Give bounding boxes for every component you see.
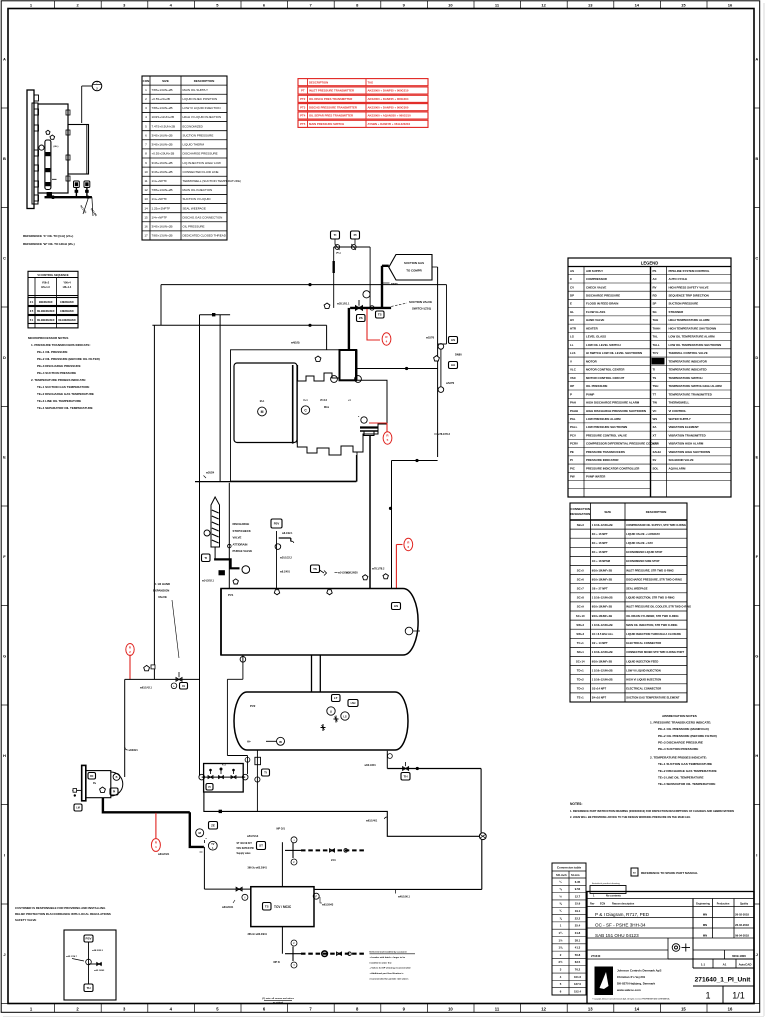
svg-text:22.2: 22.2 [575, 916, 581, 920]
svg-text:50% RATED PSI: 50% RATED PSI [237, 847, 255, 850]
oil receiver vessel PV2 [234, 692, 408, 750]
svg-text:9/16+18UNF+2B: 9/16+18UNF+2B [592, 605, 612, 609]
svg-text:13: 13 [144, 197, 148, 201]
red highlight wire at suction valve [367, 309, 380, 340]
svg-text:LI: LI [330, 710, 333, 714]
svg-text:TEMPERATURE INDICATOR: TEMPERATURE INDICATOR [669, 359, 708, 363]
red revision balloon 3 [404, 538, 413, 550]
svg-text:24 h: 24 h [331, 859, 336, 862]
svg-text:1/4++NPTF: 1/4++NPTF [152, 197, 168, 201]
conversion table [552, 863, 586, 995]
svg-text:VI CONTROL SEQUENCE: VI CONTROL SEQUENCE [37, 273, 68, 277]
svg-text:3/4+16 NPT: 3/4+16 NPT [592, 696, 607, 700]
red highlight wire discharge [369, 422, 387, 424]
svg-text:DP: DP [570, 294, 574, 298]
svg-text:366-3c w63.2/941: 366-3c w63.2/941 [248, 867, 268, 870]
svg-text:w62.1/74.7: w62.1/74.7 [66, 955, 78, 958]
svg-text:SD+1: SD+1 [577, 650, 585, 654]
svg-text:7/8S+13UN+2B: 7/8S+13UN+2B [152, 234, 173, 238]
suction housing bold [340, 350, 357, 380]
svg-text:3/4S+16UN+2B: 3/4S+16UN+2B [152, 170, 173, 174]
svg-text:PAH: PAH [570, 401, 576, 405]
wire drop to economizer line [219, 315, 221, 482]
svg-text:SI-mm: SI-mm [571, 873, 580, 877]
svg-text:REFERENCE 'X' OIL TO [GA] (24+: REFERENCE 'X' OIL TO [GA] (24+) [23, 234, 73, 238]
svg-text:16: 16 [728, 1006, 733, 1011]
svg-text:1 1/16+12UN+2B: 1 1/16+12UN+2B [592, 677, 613, 681]
svg-text:FLOW GLASS: FLOW GLASS [586, 310, 605, 314]
svg-text:w63.2/421: w63.2/421 [158, 853, 170, 856]
svg-text:AKS3000 + DANF05 + 060G304: AKS3000 + DANF05 + 060G304 [368, 97, 409, 101]
svg-text:LLS: LLS [570, 351, 576, 355]
svg-text:C+1: C+1 [303, 400, 308, 402]
svg-text:w8.1/22.1: w8.1/22.1 [282, 532, 293, 535]
svg-text:PE+3 DISCHARGE PRESSURE: PE+3 DISCHARGE PRESSURE [658, 740, 703, 744]
flag suction gas to compressor [389, 255, 432, 281]
svg-text:50.8: 50.8 [575, 953, 581, 957]
svg-text:SIZE: SIZE [162, 79, 169, 83]
svg-text:DISCHARGE PRESSURE: DISCHARGE PRESSURE [183, 152, 218, 156]
svg-text:SC+5: SC+5 [577, 568, 585, 572]
svg-text:3/4S+16UN+2B: 3/4S+16UN+2B [152, 143, 173, 147]
svg-text:DISCHARGE PRESSURE: DISCHARGE PRESSURE [586, 294, 620, 298]
svg-text:COMPRESSOR DIFFERENTIAL PRESSU: COMPRESSOR DIFFERENTIAL PRESSURE COOLER [586, 442, 659, 446]
svg-text:DE-ENERGIZED: DE-ENERGIZED [58, 320, 76, 322]
svg-text:HIGH DISCHARGE PRESSURE ALARM: HIGH DISCHARGE PRESSURE ALARM [586, 401, 640, 405]
oil pump P1 [82, 765, 86, 800]
svg-text:7.47S+0.5UN+2B: 7.47S+0.5UN+2B [152, 124, 176, 128]
svg-text:26-02-2018: 26-02-2018 [735, 913, 749, 917]
bottom grid band ticks [54, 1004, 56, 1013]
svg-text:VIBRATION HIGH SHUTDOWN: VIBRATION HIGH SHUTDOWN [669, 450, 711, 454]
svg-text:17: 17 [144, 234, 148, 238]
page edge shadow [763, 3, 765, 1016]
svg-text:ZE: ZE [211, 823, 215, 827]
svg-text:10: 10 [144, 170, 148, 174]
relief isolation valve [275, 544, 281, 550]
svg-text:LOW PRESSURE ALARM: LOW PRESSURE ALARM [586, 417, 621, 421]
svg-text:PE: PE [570, 450, 574, 454]
svg-text:WATER SUPPLY: WATER SUPPLY [669, 417, 691, 421]
svg-text:STRAINER: STRAINER [669, 310, 685, 314]
compressor C1 body [297, 350, 387, 455]
svg-text:OP: OP [570, 384, 574, 388]
wire suction shutoff run [350, 307, 391, 309]
svg-text:SIZE: SIZE [604, 510, 611, 514]
svg-text:A1: A1 [723, 963, 727, 967]
svg-text:3/4 + 16 NPT: 3/4 + 16 NPT [592, 550, 608, 554]
svg-text:ENERGIZED: ENERGIZED [39, 302, 53, 304]
svg-text:RV: RV [653, 285, 657, 289]
svg-text:B: B [116, 776, 118, 779]
svg-text:SUCTION GAS: SUCTION GAS [404, 261, 424, 265]
svg-text:26-02-2018: 26-02-2018 [735, 923, 749, 927]
relief outlet elbow [279, 537, 291, 539]
svg-text:VSC: VSC [570, 376, 577, 380]
red highlight wire expansion [129, 655, 131, 680]
pentagon tag on compressor [315, 356, 321, 361]
svg-text:ELECTRICAL CONNECTOR: ELECTRICAL CONNECTOR [626, 641, 661, 645]
svg-text:THERMAL CONTROL VALVE: THERMAL CONTROL VALVE [669, 351, 708, 355]
svg-text:TERMOWELL (SUCTION TEMPERATURE: TERMOWELL (SUCTION TEMPERATURE) [183, 179, 241, 183]
svg-text:DESIGNATION: DESIGNATION [570, 512, 590, 516]
svg-text:PUMP WATER: PUMP WATER [586, 475, 606, 479]
svg-text:SWITCH (Z01): SWITCH (Z01) [412, 307, 431, 311]
svg-text:LT: LT [334, 696, 338, 700]
wire discharge check run bold [214, 559, 239, 568]
junction node [308, 324, 311, 327]
svg-text:3/4 + 16 NPT: 3/4 + 16 NPT [592, 532, 608, 536]
wire separator to receiver B [319, 655, 321, 692]
svg-text:w63.1/42.1: w63.1/42.1 [140, 687, 152, 690]
red highlight oil supply [155, 813, 157, 839]
drain valve solid tag [219, 570, 225, 575]
svg-text:LIQUID INJECTION, STR TWD O-RI: LIQUID INJECTION, STR TWD O-RING [626, 596, 674, 600]
svg-text:w8.1/401: w8.1/401 [280, 571, 291, 574]
svg-text:VALVE: VALVE [158, 595, 167, 599]
svg-text:CON: CON [143, 79, 150, 83]
wire strainer outlet [214, 547, 216, 559]
svg-text:152.4: 152.4 [574, 989, 581, 993]
svg-text:1: 1 [705, 991, 710, 1001]
svg-text:PSV: PSV [274, 522, 280, 526]
wire to TCV [203, 847, 205, 889]
svg-text:1 1/16+12UN+2B: 1 1/16+12UN+2B [592, 668, 613, 672]
svg-text:HV: HV [570, 318, 574, 322]
svg-text:TE+4 SEPARATOR OIL TEMPERATURE: TE+4 SEPARATOR OIL TEMPERATURE [37, 406, 93, 410]
svg-text:CV: CV [570, 285, 574, 289]
svg-text:MN: MN [703, 934, 707, 938]
discharge flange bold [360, 426, 378, 428]
svg-text:LOW OIL TEMPERATURE ALARM: LOW OIL TEMPERATURE ALARM [669, 335, 716, 339]
junction node [389, 507, 392, 510]
svg-text:OIL SEPAR PRES TRANSMITTER: OIL SEPAR PRES TRANSMITTER [309, 114, 353, 118]
svg-text:1½: 1½ [559, 938, 564, 942]
sheet number cells [722, 986, 724, 1004]
svg-text:VLC: VLC [570, 368, 577, 372]
svg-text:LOW OIL TEMPERATURE SHUTDOWN: LOW OIL TEMPERATURE SHUTDOWN [669, 343, 722, 347]
svg-text:31.8: 31.8 [575, 931, 581, 935]
svg-text:PT: PT [301, 89, 305, 93]
svg-text:TI: TI [264, 771, 267, 775]
svg-text:PT3: PT3 [300, 105, 306, 109]
pentagon nozzle tag [233, 579, 238, 584]
water return dashed wire bottom [301, 953, 364, 955]
svg-text:SOLENOID VALVE: SOLENOID VALVE [669, 458, 694, 462]
svg-text:PUMP: PUMP [586, 392, 594, 396]
svg-text:ST: ST [259, 844, 263, 848]
svg-text:SUCTION PRESSURE: SUCTION PRESSURE [183, 133, 214, 137]
svg-text:1/1: 1/1 [732, 991, 745, 1001]
svg-text:HI SWITCH LOW OIL LEVEL SHUTDO: HI SWITCH LOW OIL LEVEL SHUTDOWN [586, 351, 642, 355]
svg-text:DE-ENERGIZED: DE-ENERGIZED [37, 320, 55, 322]
svg-text:AS: AS [394, 604, 398, 608]
pentagon tag line B end [324, 303, 330, 308]
svg-text:DESCRIPTION: DESCRIPTION [309, 80, 328, 84]
wire TCV bottom branch [281, 927, 283, 954]
wire gauge manifold [334, 246, 370, 248]
svg-text:TE+4 SEPARATOR OIL TEMPERATURE: TE+4 SEPARATOR OIL TEMPERATURE [658, 782, 715, 786]
oil filter F2 box [204, 764, 244, 793]
svg-text:SC+9: SC+9 [577, 605, 585, 609]
svg-text:installed in water line: installed in water line [370, 961, 393, 964]
control sequence table [28, 271, 78, 328]
svg-text:9/16+18UNF+2B: 9/16+18UNF+2B [592, 568, 612, 572]
svg-text:PURGE VALVE: PURGE VALVE [233, 549, 253, 553]
svg-text:COMPRESSOR OIL SUPPLY, STR TWD: COMPRESSOR OIL SUPPLY, STR TWD O-RING [626, 523, 686, 527]
svg-text:SOL: SOL [653, 466, 659, 470]
receiver heater [277, 737, 285, 745]
svg-text:LIQUID THERM: LIQUID THERM [183, 143, 205, 147]
wire left standpipe B [199, 315, 201, 775]
svg-text:DESCRIPTION: DESCRIPTION [646, 510, 667, 514]
svg-text:Autodesk product drawing: Autodesk product drawing [592, 882, 620, 885]
svg-text:101.6: 101.6 [574, 975, 581, 979]
wire discharge drop to separator [369, 436, 371, 588]
svg-text:w28.5/25.3: w28.5/25.3 [92, 950, 104, 952]
svg-text:1.25x+2NPTF: 1.25x+2NPTF [152, 206, 171, 210]
svg-text:SC+10: SC+10 [576, 614, 585, 618]
wire gauge stub B [354, 239, 356, 245]
receiver level cross marks [321, 727, 326, 729]
instrument tag TI [331, 231, 340, 239]
svg-text:15.9: 15.9 [575, 902, 581, 906]
svg-text:OIL PRESSURE: OIL PRESSURE [586, 384, 608, 388]
svg-text:1/4++NPTF: 1/4++NPTF [152, 179, 168, 183]
svg-text:ELECTRICAL CONNECTOR: ELECTRICAL CONNECTOR [626, 687, 661, 691]
svg-text:GL: GL [570, 310, 574, 314]
svg-text:RD: RD [653, 294, 657, 298]
svg-text:6009-1806: 6009-1806 [732, 954, 746, 958]
svg-text:TE+2 DISCHARGE GAS TEMPERATURE: TE+2 DISCHARGE GAS TEMPERATURE [37, 392, 94, 396]
svg-text:PT2: PT2 [300, 97, 306, 101]
svg-text:LIQUID INJECTION THROUGH A CLO: LIQUID INJECTION THROUGH A CLOSURE [626, 632, 681, 636]
separator nozzle pentagons [274, 590, 279, 595]
svg-text:TCV: TCV [653, 351, 659, 355]
svg-text:1 1/16+12UN+2B: 1 1/16+12UN+2B [592, 596, 613, 600]
red highlight separator inlet [396, 544, 402, 546]
svg-text:1/4 + 18 NPSM: 1/4 + 18 NPSM [592, 559, 611, 563]
svg-text:w52/70: w52/70 [426, 337, 435, 340]
tag AA [449, 362, 458, 369]
pump tag bubble [113, 774, 120, 781]
connection designation table [570, 503, 687, 702]
svg-text:12: 12 [541, 2, 546, 7]
svg-text:INLET PRESSURE, STR TWD O-RING: INLET PRESSURE, STR TWD O-RING [626, 568, 673, 572]
wire header left drop [160, 285, 162, 326]
svg-text:ECONOMIZED LIQUID STOP: ECONOMIZED LIQUID STOP [626, 550, 662, 554]
svg-text:366-3c w63.2/941: 366-3c w63.2/941 [248, 933, 268, 936]
svg-text:TAG: TAG [368, 80, 374, 84]
svg-text:REFERENCE 'W' OIL TO HIGH (W+): REFERENCE 'W' OIL TO HIGH (W+) [23, 242, 75, 246]
relief valve PSV line [276, 531, 278, 589]
svg-text:12: 12 [541, 1006, 546, 1011]
oil connection diagonal labels [83, 199, 88, 214]
svg-text:w78.1/78.3: w78.1/78.3 [438, 433, 451, 436]
svg-text:AKS3000 + AQANS05 + 060G210: AKS3000 + AQANS05 + 060G210 [368, 114, 412, 118]
red revision balloon 5 [151, 839, 160, 852]
projection symbol cell [667, 938, 669, 959]
svg-text:1. PRESSURE TRANSDUCERS INDICA: 1. PRESSURE TRANSDUCERS INDICATE: [650, 721, 711, 725]
svg-text:C: C [3, 256, 6, 261]
cooler check valve [479, 833, 486, 840]
svg-text:Reason description: Reason description [612, 903, 635, 906]
wire oil supply corner bold [190, 812, 204, 847]
svg-text:TS: TS [378, 313, 382, 317]
svg-text:Production: Production [717, 903, 730, 906]
wire economizer return [195, 481, 356, 483]
svg-text:VIBRATION TRANSMITTED: VIBRATION TRANSMITTED [669, 433, 706, 437]
svg-text:PRESSURE INDICATOR: PRESSURE INDICATOR [586, 458, 619, 462]
svg-text:VI=2.6: VI=2.6 [320, 399, 328, 402]
svg-text:DK-8270 Højbjerg, Denmark: DK-8270 Højbjerg, Denmark [617, 982, 655, 986]
svg-text:TE+1 SUCTION GAS TEMPERATURE: TE+1 SUCTION GAS TEMPERATURE [37, 385, 89, 389]
svg-text:INLET PRESSURE OIL COOLER, STR: INLET PRESSURE OIL COOLER, STR TWD O-RIN… [626, 605, 691, 609]
svg-text:1. REFERENCE PART INSTRUCTION: 1. REFERENCE PART INSTRUCTION DRAWING (0… [570, 809, 734, 813]
svg-text:as original: as original [273, 1002, 283, 1004]
svg-text:w63.2/941: w63.2/941 [222, 906, 234, 909]
oil separator vessel PV1 [221, 589, 418, 656]
svg-text:B: B [3, 156, 6, 161]
svg-text:D: D [755, 355, 758, 360]
svg-text:TD+1: TD+1 [577, 668, 584, 672]
approval columns [712, 899, 714, 939]
svg-text:AutoCAD: AutoCAD [739, 963, 752, 967]
svg-text:MOTOR: MOTOR [586, 359, 598, 363]
svg-text:HEATER: HEATER [586, 326, 599, 330]
svg-text:PS: PS [653, 269, 657, 273]
svg-text:I: I [756, 853, 757, 858]
svg-text:w52/70: w52/70 [446, 382, 455, 385]
svg-text:PI: PI [354, 233, 357, 237]
svg-text:PIPELINE SYSTEM CONTROL: PIPELINE SYSTEM CONTROL [669, 269, 710, 273]
compressor tag [301, 406, 309, 414]
svg-text:NOTES:: NOTES: [570, 802, 582, 806]
svg-text:PE+1 OIL PRESSURE (MANIFOLD): PE+1 OIL PRESSURE (MANIFOLD) [658, 727, 709, 731]
wire oil line to cooler [204, 792, 479, 836]
svg-text:+ breaker with hatch + larger: + breaker with hatch + larger to be [370, 956, 406, 959]
red revision balloon 2 [383, 432, 392, 444]
wire compressor drain drop [355, 455, 357, 482]
svg-text:CONNECTED MIXED STR TWD O-RING: CONNECTED MIXED STR TWD O-RING PORT [626, 650, 684, 654]
svg-text:DISCHG.GAS CONNECTION: DISCHG.GAS CONNECTION [183, 215, 223, 219]
svg-text:TEMPERATURE TRANSMITTED: TEMPERATURE TRANSMITTED [669, 392, 712, 396]
svg-text:REFERENCE TO SPARE PART MANUAL: REFERENCE TO SPARE PART MANUAL [641, 871, 698, 875]
svg-text:PI: PI [113, 791, 116, 794]
tag TS on separator [311, 565, 320, 573]
svg-text:LOW OIL LEVEL SWITCH: LOW OIL LEVEL SWITCH [586, 343, 621, 347]
svg-text:AKS3000 + DANF05 + 060G210: AKS3000 + DANF05 + 060G210 [368, 89, 409, 93]
svg-text:2. TEMPERATURE PROBES INDICATE: 2. TEMPERATURE PROBES INDICATE: [31, 378, 86, 382]
svg-text:41.3: 41.3 [575, 946, 581, 950]
strainer inlet tag [204, 530, 210, 536]
svg-text:TE+3 LINE OIL TEMPERATURE: TE+3 LINE OIL TEMPERATURE [37, 399, 81, 403]
svg-text:AV: AV [182, 685, 186, 688]
svg-text:SB+3: SB+3 [577, 523, 585, 527]
junction node [405, 367, 408, 370]
svg-text:271640_1_PI_Unit: 271640_1_PI_Unit [695, 977, 752, 984]
svg-text:2. TEMPERATURE PROBES INDICATE: 2. TEMPERATURE PROBES INDICATE: [650, 756, 707, 760]
compressor package boundary [231, 350, 358, 481]
svg-text:PI: PI [208, 786, 211, 789]
red markup table [298, 79, 428, 86]
top grid band ticks [54, 1, 56, 9]
svg-text:11: 11 [495, 1006, 500, 1011]
svg-text:H: H [755, 753, 758, 758]
svg-text:6.35: 6.35 [575, 880, 581, 884]
svg-text:XAHH: XAHH [653, 450, 661, 454]
wire bypass elbow to separator [392, 460, 438, 462]
svg-text:LSH: LSH [351, 702, 356, 705]
scale format cells [693, 967, 754, 969]
svg-text:1:1: 1:1 [701, 963, 706, 967]
motor tag [258, 407, 267, 416]
svg-text:HI=: HI= [247, 741, 251, 744]
svg-text:LL: LL [570, 343, 574, 347]
svg-text:LIQUID VALVE + LOW/DAY: LIQUID VALVE + LOW/DAY [626, 532, 660, 536]
svg-text:LOW VI LIQUID INJECTION: LOW VI LIQUID INJECTION [626, 668, 661, 672]
svg-text:TCV / MCIC: TCV / MCIC [274, 905, 292, 909]
svg-text:Conversion table: Conversion table [557, 866, 582, 870]
discharge strainer F1 [211, 497, 220, 547]
svg-text:LOW PRESSURE SHUTDOWN: LOW PRESSURE SHUTDOWN [586, 425, 627, 429]
svg-text:ZS: ZS [359, 316, 363, 320]
svg-text:PT4: PT4 [300, 114, 306, 118]
balloon detail callout [92, 81, 102, 91]
svg-text:TEMPERATURE SWITCH: TEMPERATURE SWITCH [669, 376, 703, 380]
svg-text:STOP/CHECK: STOP/CHECK [233, 529, 251, 533]
svg-text:TE+1 SUCTION GAS TEMPERATURE: TE+1 SUCTION GAS TEMPERATURE [658, 762, 712, 766]
svg-text:HIGH VI LIQUID INJECTION: HIGH VI LIQUID INJECTION [183, 115, 222, 119]
tag TI filter [202, 554, 211, 562]
svg-text:I: I [4, 853, 5, 858]
svg-text:14: 14 [635, 2, 640, 7]
receiver level instruments [332, 695, 341, 702]
wire right bypass riser [437, 267, 439, 457]
check valve right bottom [438, 387, 444, 393]
TCV inlet valve [236, 887, 242, 891]
valve limit tag ZS [357, 315, 366, 322]
svg-text:HIGH PRESS SAFETY VALVE: HIGH PRESS SAFETY VALVE [669, 285, 709, 289]
compressor instrument bubbles [331, 376, 338, 383]
wire cooler return [481, 840, 483, 890]
svg-text:15: 15 [681, 1006, 686, 1011]
svg-text:1. PRESSURE TRANSDUCERS INDICA: 1. PRESSURE TRANSDUCERS INDICATE: [31, 343, 90, 347]
coupling [292, 365, 294, 444]
oil pump cartridge in detail view [45, 140, 51, 190]
wire short header [200, 314, 231, 316]
svg-text:AKS3000 + DANF05 + 060G300: AKS3000 + DANF05 + 060G300 [368, 105, 409, 109]
svg-text:10: 10 [448, 2, 453, 7]
svg-text:AUTO CYCLE: AUTO CYCLE [669, 277, 688, 281]
svg-text:Christian X's Vej 201: Christian X's Vej 201 [617, 975, 646, 979]
wire suction into compressor bold [348, 308, 350, 350]
svg-text:TE+1: TE+1 [577, 696, 584, 700]
svg-text:PCRV: PCRV [570, 442, 578, 446]
svg-text:1 1/16+12UN+2B: 1 1/16+12UN+2B [592, 623, 613, 627]
svg-text:LIQUID INJECTION FEED: LIQUID INJECTION FEED [626, 659, 658, 663]
svg-text:XAH: XAH [653, 442, 659, 446]
svg-text:VALVE: VALVE [233, 536, 242, 540]
svg-text:TI: TI [653, 368, 656, 372]
svg-text:PT5: PT5 [300, 122, 306, 126]
svg-text:+ Additional part flow filtrat: + Additional part flow filtration is [370, 972, 405, 975]
svg-text:w14.2/02.1: w14.2/02.1 [338, 572, 350, 575]
svg-text:10: 10 [448, 1006, 453, 1011]
receiver sight glass drain [256, 750, 258, 811]
svg-text:(W+): (W+) [54, 146, 59, 148]
svg-text:D: D [3, 355, 6, 360]
